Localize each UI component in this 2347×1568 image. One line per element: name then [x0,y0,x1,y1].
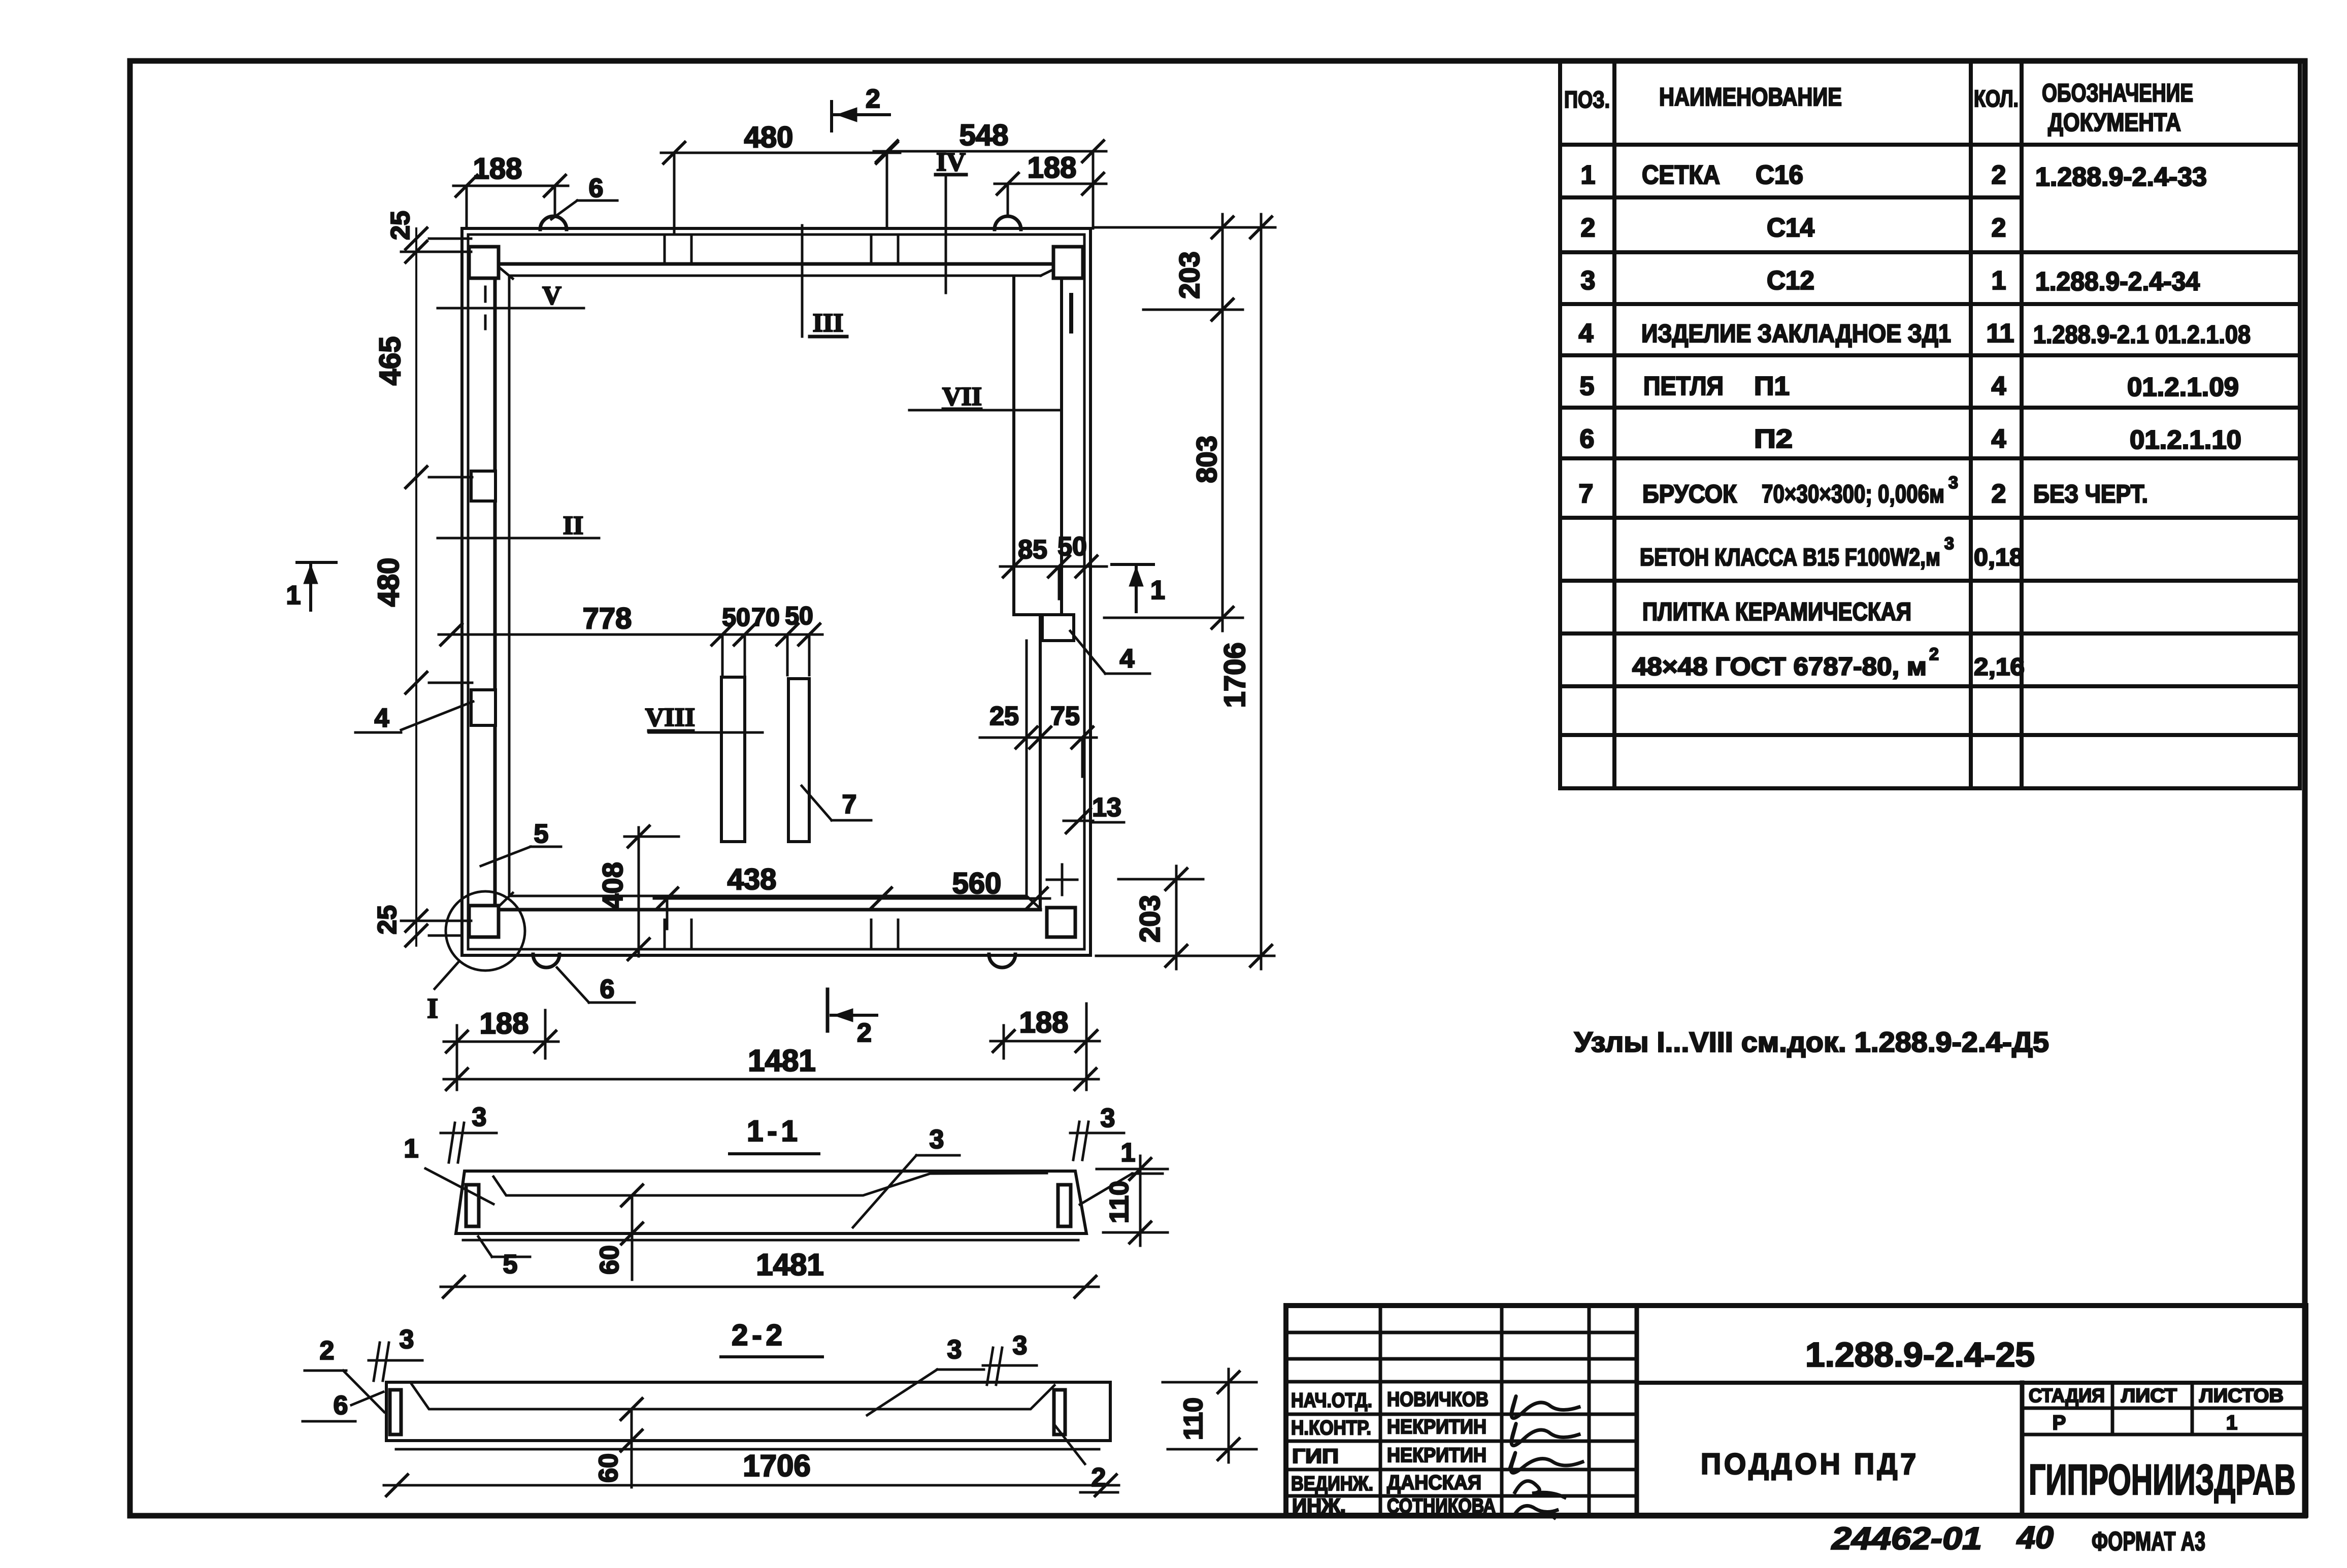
chamfer diagonal bottom-left [498,893,513,908]
svg-text:203: 203 [1173,251,1205,298]
svg-text:2: 2 [1992,160,2006,190]
svg-text:5: 5 [534,819,549,849]
section 1-1 label 3 middle leader [916,1154,960,1157]
lifting loop P2 bottom-left [533,954,559,968]
svg-text:ПЕТЛЯ: ПЕТЛЯ [1643,372,1724,401]
section 2-2 dimension 60 [631,1409,633,1487]
plan outer edge outer line [462,228,1090,955]
svg-text:3: 3 [947,1335,962,1364]
embedded plate ZD1 right wall block [1012,278,1015,615]
section 1-1 dimension 1481 [441,1286,1099,1288]
svg-text:188: 188 [1019,1006,1069,1039]
svg-text:1: 1 [404,1134,419,1163]
svg-text:25: 25 [989,702,1019,731]
left dimension chain line [415,228,417,946]
svg-text:3: 3 [1948,473,1958,492]
svg-text:3: 3 [400,1325,414,1354]
lifting loop P2 top-right [995,216,1021,229]
svg-text:13: 13 [1092,793,1121,822]
section 1-1 mark 3 left [449,1123,455,1162]
signature squiggles [1511,1396,1579,1418]
section 2-2 title underline [721,1355,822,1358]
section arrow 1 right [1112,563,1153,566]
svg-text:6: 6 [334,1391,348,1420]
dimension 203 right-top [1094,226,1275,229]
svg-text:III: III [813,309,844,338]
svg-text:480: 480 [372,558,405,607]
section 1-1 tray floor [493,1173,1047,1195]
node I detail circle [446,891,525,971]
svg-text:ВЕДИНЖ.: ВЕДИНЖ. [1291,1473,1373,1495]
dimension 408 [638,827,640,956]
dimension 188 bottom-right [1003,1025,1005,1058]
extension line bottom b [429,935,459,937]
section 2-2 end plate left [390,1390,401,1434]
svg-text:408: 408 [597,862,629,909]
dimension 548 top [1092,151,1095,228]
title block outer frame [1286,1306,2306,1515]
svg-text:48×48 ГОСТ 6787-80, м: 48×48 ГОСТ 6787-80, м [1632,652,1927,681]
svg-text:НЕКРИТИН: НЕКРИТИН [1387,1444,1486,1466]
svg-text:2,16: 2,16 [1974,654,2025,681]
section 1-1 lower skin line [463,1239,1078,1242]
svg-text:2: 2 [1581,213,1596,243]
plan wall inner thick edge [493,264,497,910]
svg-text:60: 60 [594,1453,623,1483]
svg-text:1.288.9-2.4-33: 1.288.9-2.4-33 [2035,162,2207,192]
svg-text:НАЧ.ОТД.: НАЧ.ОТД. [1291,1389,1372,1412]
dimension 203 right-bottom [1118,878,1203,881]
svg-text:188: 188 [1028,151,1077,184]
svg-text:2: 2 [1992,213,2006,243]
svg-text:4: 4 [1579,319,1594,348]
extension line between 480 and 548 [886,153,888,227]
closure plate small dashes left wall [484,287,487,302]
svg-text:П2: П2 [1754,424,1793,454]
timber bar 7 right [788,679,809,842]
svg-text:25: 25 [373,905,402,935]
closure plate ticks top wall [664,235,666,264]
section 2-2 mark 3 right [987,1348,993,1385]
chamfer diagonal top-left [498,266,513,279]
embedded plate ZD1 top-right corner [1053,247,1083,278]
extension line 25 top b [401,251,471,253]
svg-text:ПЛИТКА КЕРАМИЧЕСКАЯ: ПЛИТКА КЕРАМИЧЕСКАЯ [1642,597,1911,626]
svg-text:Р: Р [2053,1412,2066,1434]
cut mark IV underline [936,173,966,177]
plan outer edge inner line [468,235,1084,949]
svg-text:1706: 1706 [1218,642,1251,708]
svg-text:110: 110 [1179,1397,1208,1440]
svg-text:ИЗДЕЛИЕ ЗАКЛАДНОЕ ЗД1: ИЗДЕЛИЕ ЗАКЛАДНОЕ ЗД1 [1641,319,1951,348]
svg-text:60: 60 [595,1245,624,1275]
svg-text:3: 3 [1581,266,1596,295]
svg-text:4: 4 [1992,372,2006,401]
svg-text:203: 203 [1134,895,1166,942]
dimension 1481 bottom [456,1042,458,1090]
svg-text:2: 2 [857,1018,872,1048]
svg-text:ПОДДОН ПД7: ПОДДОН ПД7 [1701,1448,1919,1481]
cut mark VII line [909,409,1062,412]
svg-text:25: 25 [386,211,415,240]
svg-text:ЛИСТОВ: ЛИСТОВ [2199,1385,2284,1407]
svg-text:40: 40 [2016,1520,2054,1555]
cut mark VIII line [649,731,763,734]
section 2-2 lower skin line [396,1448,1099,1451]
cut mark III vertical line [801,225,804,337]
svg-text:1.288.9-2.4-25: 1.288.9-2.4-25 [1805,1336,2035,1374]
timber bar 7 left [721,677,745,842]
svg-text:188: 188 [480,1007,529,1040]
svg-text:75: 75 [1050,702,1080,731]
svg-text:480: 480 [744,121,794,154]
plan wall chamfer edge [508,276,511,896]
svg-text:Узлы I...VIII см.док. 1.288.9-: Узлы I...VIII см.док. 1.288.9-2.4-Д5 [1574,1026,2049,1058]
svg-text:6: 6 [1580,424,1595,454]
svg-text:1-1: 1-1 [747,1115,802,1148]
svg-text:560: 560 [952,867,1002,900]
svg-text:1: 1 [286,581,301,610]
svg-text:ГИПРОНИИЗДРАВ: ГИПРОНИИЗДРАВ [2029,1456,2296,1504]
svg-text:Н.КОНТР.: Н.КОНТР. [1291,1417,1371,1439]
svg-text:1: 1 [1581,160,1596,190]
dimension 803 right [1221,296,1224,631]
chamfer diagonal bottom-right [1027,896,1040,909]
svg-text:4: 4 [1120,644,1135,674]
section 2-2 slab outline [386,1382,1110,1441]
svg-text:7: 7 [1579,479,1594,509]
junction cross near 13 [1047,879,1077,881]
extension line mid [429,476,472,479]
title block horizontals right part [1637,1381,2306,1385]
dimension 50 70 50 [734,624,755,645]
svg-text:110: 110 [1105,1181,1134,1223]
svg-text:БЕТОН КЛАССА В15 F100W2,м: БЕТОН КЛАССА В15 F100W2,м [1640,544,1940,571]
svg-text:1: 1 [1121,1138,1136,1167]
svg-text:1481: 1481 [756,1248,823,1282]
svg-text:С16: С16 [1756,160,1803,190]
svg-text:50: 50 [785,602,813,630]
lifting loop P2 bottom-right [989,954,1015,968]
svg-text:01.2.1.09: 01.2.1.09 [2127,373,2239,402]
svg-text:6: 6 [600,975,615,1004]
svg-text:БРУСОК: БРУСОК [1642,480,1737,508]
label 4 right with leader [1070,631,1105,674]
svg-text:85: 85 [1018,535,1047,564]
dimension 85 50 right [1000,565,1107,568]
section 1-1 end plate left [466,1185,479,1226]
section 2-2 tray floor [412,1384,1054,1409]
svg-text:5: 5 [1580,372,1595,401]
svg-text:3: 3 [1013,1331,1028,1360]
svg-text:70×30×300; 0,006м: 70×30×300; 0,006м [1762,480,1944,508]
svg-text:7: 7 [842,790,857,819]
svg-text:ИНЖ.: ИНЖ. [1292,1495,1346,1517]
svg-text:БЕЗ ЧЕРТ.: БЕЗ ЧЕРТ. [2033,480,2148,508]
cut mark V line [438,307,584,310]
svg-text:ПОЗ.: ПОЗ. [1564,86,1610,113]
svg-text:1481: 1481 [748,1044,815,1078]
svg-text:1.288.9-2.4-34: 1.288.9-2.4-34 [2035,267,2200,296]
section 2-2 end plate right [1054,1390,1065,1434]
svg-text:1: 1 [1992,266,2006,295]
section 1-1 mark 3 right [1073,1122,1079,1160]
svg-text:4: 4 [1992,424,2006,454]
svg-text:2: 2 [1929,645,1939,664]
cut mark II line [438,537,599,540]
svg-text:ДАНСКАЯ: ДАНСКАЯ [1387,1472,1481,1494]
embedded plate ZD1 bottom-left corner [469,906,499,937]
dimension 1706 right [1260,214,1263,969]
embedded plate ZD1 right wall small [1042,615,1074,641]
svg-text:1706: 1706 [743,1449,810,1483]
closure plate ticks bottom wall [664,920,666,949]
svg-text:3: 3 [1101,1104,1115,1133]
svg-text:188: 188 [473,152,522,185]
section 1-1 label 5 leader [478,1237,492,1257]
svg-text:НЕКРИТИН: НЕКРИТИН [1387,1416,1486,1438]
section arrow 2 top [830,102,833,131]
svg-text:СОТНИКОВА: СОТНИКОВА [1387,1495,1496,1517]
section arrow 2 bottom [826,989,830,1031]
section 2-2 dimension 1706 [384,1484,1119,1487]
svg-text:01.2.1.10: 01.2.1.10 [2130,425,2241,455]
embedded plate ZD1 top-left corner [469,247,499,278]
label 7 with leader [802,786,832,820]
svg-text:438: 438 [728,863,777,896]
svg-text:ДОКУМЕНТА: ДОКУМЕНТА [2048,108,2181,137]
dimension 188 top-left [466,186,468,228]
dimension 25 75 right [980,737,1097,739]
svg-text:НОВИЧКОВ: НОВИЧКОВ [1387,1388,1489,1411]
label 4 left with leader [355,731,401,734]
dimension 778 [439,633,822,636]
embedded plate ZD1 left wall lower [471,690,495,725]
label 6 top with leader [551,201,577,219]
svg-text:V: V [542,281,561,310]
svg-text:778: 778 [583,602,632,635]
svg-text:2-2: 2-2 [732,1319,786,1352]
svg-text:ГИП: ГИП [1292,1445,1339,1467]
svg-text:ОБОЗНАЧЕНИЕ: ОБОЗНАЧЕНИЕ [2042,79,2193,107]
extension line mid2 [429,682,472,684]
section 1-1 title underline [730,1152,819,1155]
cut mark VII underline [943,408,981,411]
svg-text:50: 50 [1057,532,1087,561]
svg-text:2: 2 [866,84,880,114]
svg-text:СЕТКА: СЕТКА [1642,160,1720,190]
section 2-2 mark 3 left [374,1343,380,1381]
label 6 bottom with leader [557,968,589,1003]
svg-text:VII: VII [942,382,982,411]
svg-text:I: I [427,993,438,1024]
title block verticals [1379,1306,1382,1515]
svg-text:465: 465 [374,337,407,386]
svg-text:С12: С12 [1767,266,1814,295]
section 1-1 dimension 60 [631,1195,634,1280]
svg-text:11: 11 [1987,319,2014,348]
extension line 25 top a [429,238,471,240]
extension line 1706 bottom [1096,955,1274,957]
svg-text:СТАДИЯ: СТАДИЯ [2029,1385,2105,1407]
svg-text:50: 50 [722,603,750,631]
title block horizontals left part [1286,1331,1637,1335]
cut mark VIII underline [649,729,693,733]
svg-text:1.288.9-2.1 01.2.1.08: 1.288.9-2.1 01.2.1.08 [2033,320,2251,349]
svg-text:3: 3 [930,1125,944,1154]
svg-text:ЛИСТ: ЛИСТ [2121,1385,2177,1407]
svg-text:2: 2 [320,1336,335,1365]
cut mark III underline [810,335,847,339]
svg-text:С14: С14 [1767,213,1814,243]
svg-text:3: 3 [1944,534,1954,553]
dimension 188 top-right [1007,184,1009,215]
section 1-1 end plate right [1058,1185,1071,1226]
section 1-1 dimension 110 [1139,1156,1142,1246]
node I leader [435,961,459,989]
svg-text:КОЛ.: КОЛ. [1974,85,2019,112]
svg-text:3: 3 [472,1103,487,1132]
embedded plate ZD1 left wall upper [471,471,495,501]
svg-text:1: 1 [1150,576,1165,605]
section arrow 1 left [297,561,336,564]
svg-text:24462-01: 24462-01 [1831,1521,1982,1556]
svg-text:548: 548 [960,119,1009,152]
dimension 560 [868,897,1050,900]
lifting loop P2 top-left [540,216,567,229]
svg-text:НАИМЕНОВАНИЕ: НАИМЕНОВАНИЕ [1659,83,1842,111]
cut mark IV vertical line [945,175,947,293]
svg-text:ФОРМАТ А3: ФОРМАТ А3 [2092,1527,2205,1556]
svg-text:П1: П1 [1754,372,1790,401]
section 2-2 dimension 110 [1228,1369,1230,1462]
dimension 188 bottom-left [456,1025,458,1058]
section 2-2 label 3 middle leader [937,1369,984,1371]
svg-text:II: II [563,511,583,540]
dimension 480 top [673,153,676,233]
extension line bottom a [401,920,471,922]
chamfer diagonal top-right [1041,266,1060,276]
specification table grid [1558,62,1562,788]
svg-text:VIII: VIII [645,703,695,732]
svg-text:2: 2 [1992,479,2006,509]
svg-text:70: 70 [751,603,780,631]
embedded plate ZD1 bottom-right corner [1047,908,1075,937]
svg-text:803: 803 [1191,436,1222,483]
svg-text:0,18: 0,18 [1974,544,2024,571]
dimension 438 [654,897,894,900]
svg-text:1: 1 [2226,1412,2237,1434]
svg-text:5: 5 [503,1250,518,1279]
svg-text:6: 6 [589,174,604,203]
section 1-1 slab outline [456,1171,1086,1233]
svg-text:4: 4 [375,704,389,733]
